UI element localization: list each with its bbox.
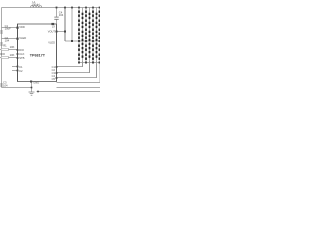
svg-text:STB: STB [19, 56, 24, 60]
svg-text:VLED: VLED [19, 36, 26, 40]
svg-text:DIO: DIO [0, 52, 5, 56]
svg-text:VOUT: VOUT [48, 29, 56, 33]
svg-text:104: 104 [59, 13, 64, 17]
svg-text:CLK: CLK [19, 52, 24, 56]
svg-text:104: 104 [5, 39, 10, 43]
svg-text:K2: K2 [19, 69, 23, 73]
svg-text:VDD: VDD [19, 25, 25, 29]
svg-text:DIO: DIO [19, 48, 24, 52]
svg-text:104: 104 [3, 83, 8, 87]
svg-text:10K: 10K [10, 53, 15, 57]
svg-text:LX: LX [52, 25, 55, 29]
svg-text:10uF: 10uF [5, 27, 11, 31]
svg-text:100uH: 100uH [32, 2, 40, 6]
svg-text:VLED: VLED [48, 41, 55, 45]
svg-text:C5: C5 [52, 77, 56, 81]
svg-text:TP6817T: TP6817T [30, 54, 46, 58]
svg-text:10K: 10K [10, 45, 15, 49]
svg-text:K1: K1 [19, 65, 23, 69]
svg-text:GND: GND [33, 81, 39, 85]
svg-text:R1: R1 [3, 43, 7, 47]
